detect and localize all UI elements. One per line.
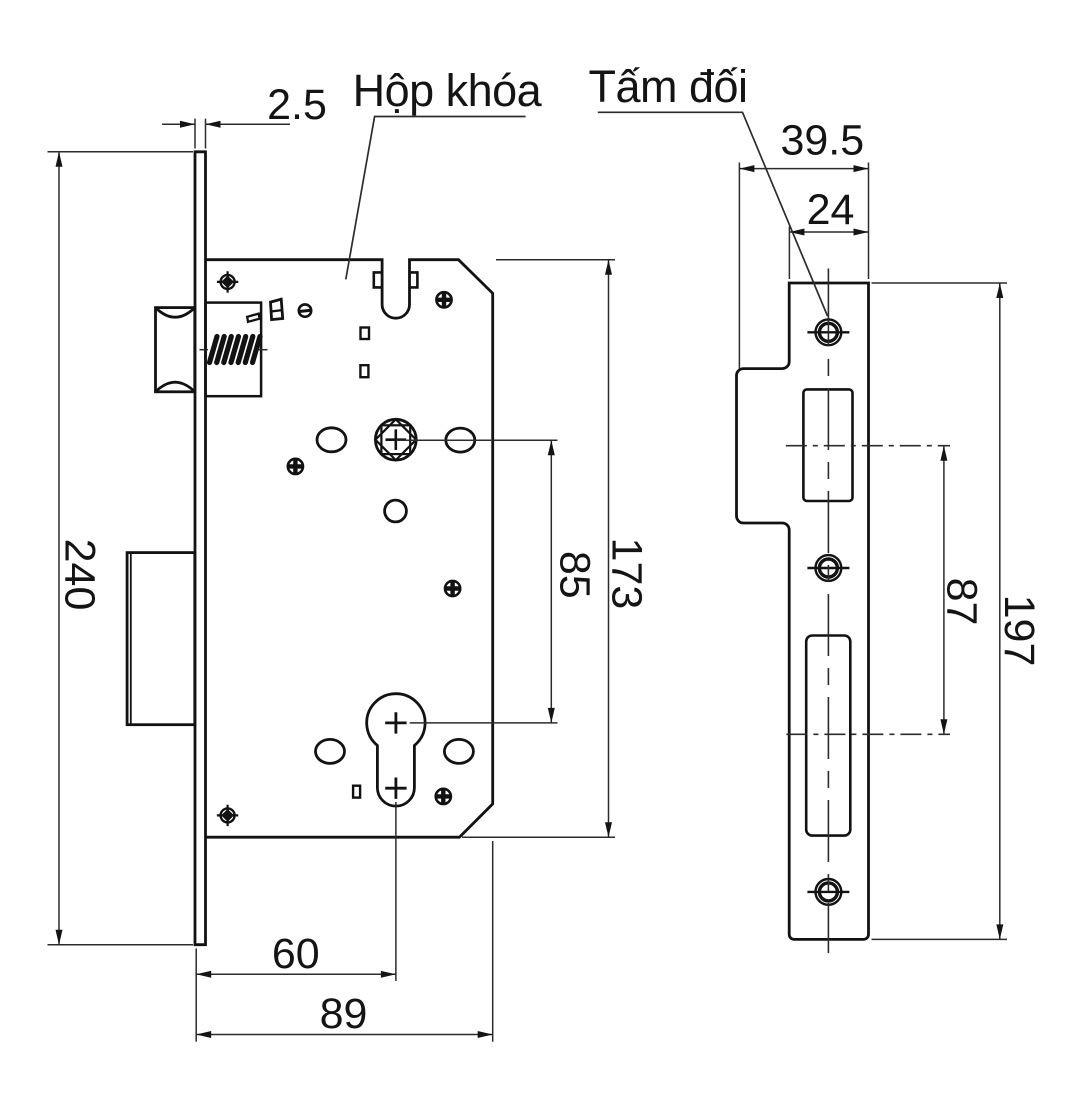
oval hole upper-left	[317, 428, 346, 452]
oval hole lower-left	[316, 739, 345, 763]
strike screw hole bottom	[807, 879, 849, 905]
euro cylinder lower cross	[385, 778, 406, 799]
small hole below spindle	[385, 500, 407, 522]
phillips screw right-middle	[445, 581, 460, 596]
svg-text:240: 240	[56, 539, 104, 611]
oval hole lower-right	[444, 739, 473, 763]
lock body notch left tab	[374, 272, 382, 287]
lock body notch right tab	[410, 272, 418, 287]
latch spring	[210, 337, 261, 363]
strike deadbolt cutout	[806, 636, 850, 836]
dimension 89 arrows	[196, 1031, 493, 1038]
small square hole 3	[353, 786, 360, 798]
strike screw hole middle	[807, 555, 849, 581]
strike vertical centerline	[827, 269, 829, 954]
dimension 240 arrows	[56, 152, 63, 945]
spring follower plate	[247, 314, 259, 322]
small square hole 1	[361, 328, 370, 340]
dimension 60 lines	[196, 802, 396, 1042]
lock body outline	[206, 260, 493, 838]
phillips screw bottom-right	[436, 789, 451, 804]
svg-text:Hộp khóa: Hộp khóa	[353, 65, 543, 116]
dimension 240 lines	[48, 152, 194, 945]
label Tam doi leader	[598, 112, 828, 316]
spindle star square 1	[375, 419, 416, 460]
svg-text:60: 60	[272, 930, 320, 978]
dimension 173 lines	[462, 260, 615, 838]
strike screw hole top	[807, 319, 849, 345]
svg-text:Tấm đối: Tấm đối	[588, 61, 747, 112]
dimension 87 line	[943, 446, 945, 735]
dimension 85 lines	[396, 440, 558, 723]
dimension 85 arrows	[548, 440, 555, 723]
svg-text:2.5: 2.5	[267, 81, 327, 129]
latch bolt	[156, 308, 195, 392]
slotted pin head	[299, 304, 311, 316]
svg-text:197: 197	[995, 595, 1043, 667]
deadbolt axis centerline	[786, 733, 950, 735]
dimension 39.5 arrows	[739, 165, 868, 172]
euro cylinder hole	[367, 694, 425, 806]
wedge cam piece	[271, 299, 283, 319]
dimension 197 lines	[872, 283, 1008, 939]
spindle star square 2	[381, 425, 410, 454]
spindle hole circle	[375, 419, 416, 460]
strike plate outline	[737, 283, 869, 939]
deadbolt	[127, 553, 195, 725]
strike latch cutout	[803, 389, 852, 501]
label Hop khoa leader	[346, 117, 526, 280]
dimension 87 arrows	[940, 446, 947, 735]
dimension 24 arrows	[789, 229, 868, 236]
phillips screw mid-left	[288, 459, 303, 474]
screw post top-left	[217, 271, 238, 292]
dimension 39.5 lines	[739, 163, 868, 369]
small square hole 2	[360, 365, 368, 377]
dimension 89 lines	[196, 841, 493, 1042]
dimension 24 lines	[789, 227, 868, 280]
dimension 2.5 lines	[162, 119, 290, 149]
svg-text:24: 24	[807, 186, 855, 234]
dimension 173 arrows	[605, 260, 612, 838]
spindle center cross	[386, 429, 407, 450]
latch axis centerline	[786, 445, 950, 447]
svg-text:39.5: 39.5	[780, 117, 864, 165]
svg-text:85: 85	[551, 551, 599, 599]
faceplate	[195, 152, 206, 945]
dimension 197 arrows	[996, 283, 1003, 939]
phillips screw top-right	[436, 292, 451, 307]
latch spring centerline	[200, 349, 268, 351]
latch guide box	[206, 303, 262, 397]
svg-text:89: 89	[320, 990, 368, 1038]
screw post bottom-left	[217, 805, 238, 826]
euro cylinder upper cross	[385, 712, 406, 733]
dimension 60 arrows	[196, 971, 396, 978]
svg-text:87: 87	[938, 578, 986, 626]
oval hole upper-right	[446, 428, 475, 452]
dimension 2.5 arrows	[180, 121, 221, 128]
svg-text:173: 173	[603, 538, 651, 610]
